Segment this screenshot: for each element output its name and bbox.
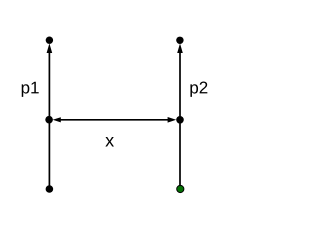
node top-left dot <box>46 37 53 44</box>
arrowhead x left <box>53 117 61 122</box>
wire x horizontal double arrow <box>59 119 170 121</box>
node mid-left dot <box>45 116 53 124</box>
label p1 <box>22 82 39 97</box>
label x <box>105 137 114 147</box>
wire p1 vertical line <box>48 51 50 189</box>
arrowhead p2 top <box>177 43 183 53</box>
node top-right dot <box>176 37 183 44</box>
node bottom-left dot <box>46 185 54 193</box>
node bottom-right green dot <box>177 185 184 192</box>
arrowhead x right <box>168 117 177 123</box>
wire p2 vertical line <box>179 51 181 189</box>
node mid-right dot <box>176 116 184 124</box>
label p2 <box>190 82 207 97</box>
arrowhead p1 top <box>47 43 53 53</box>
